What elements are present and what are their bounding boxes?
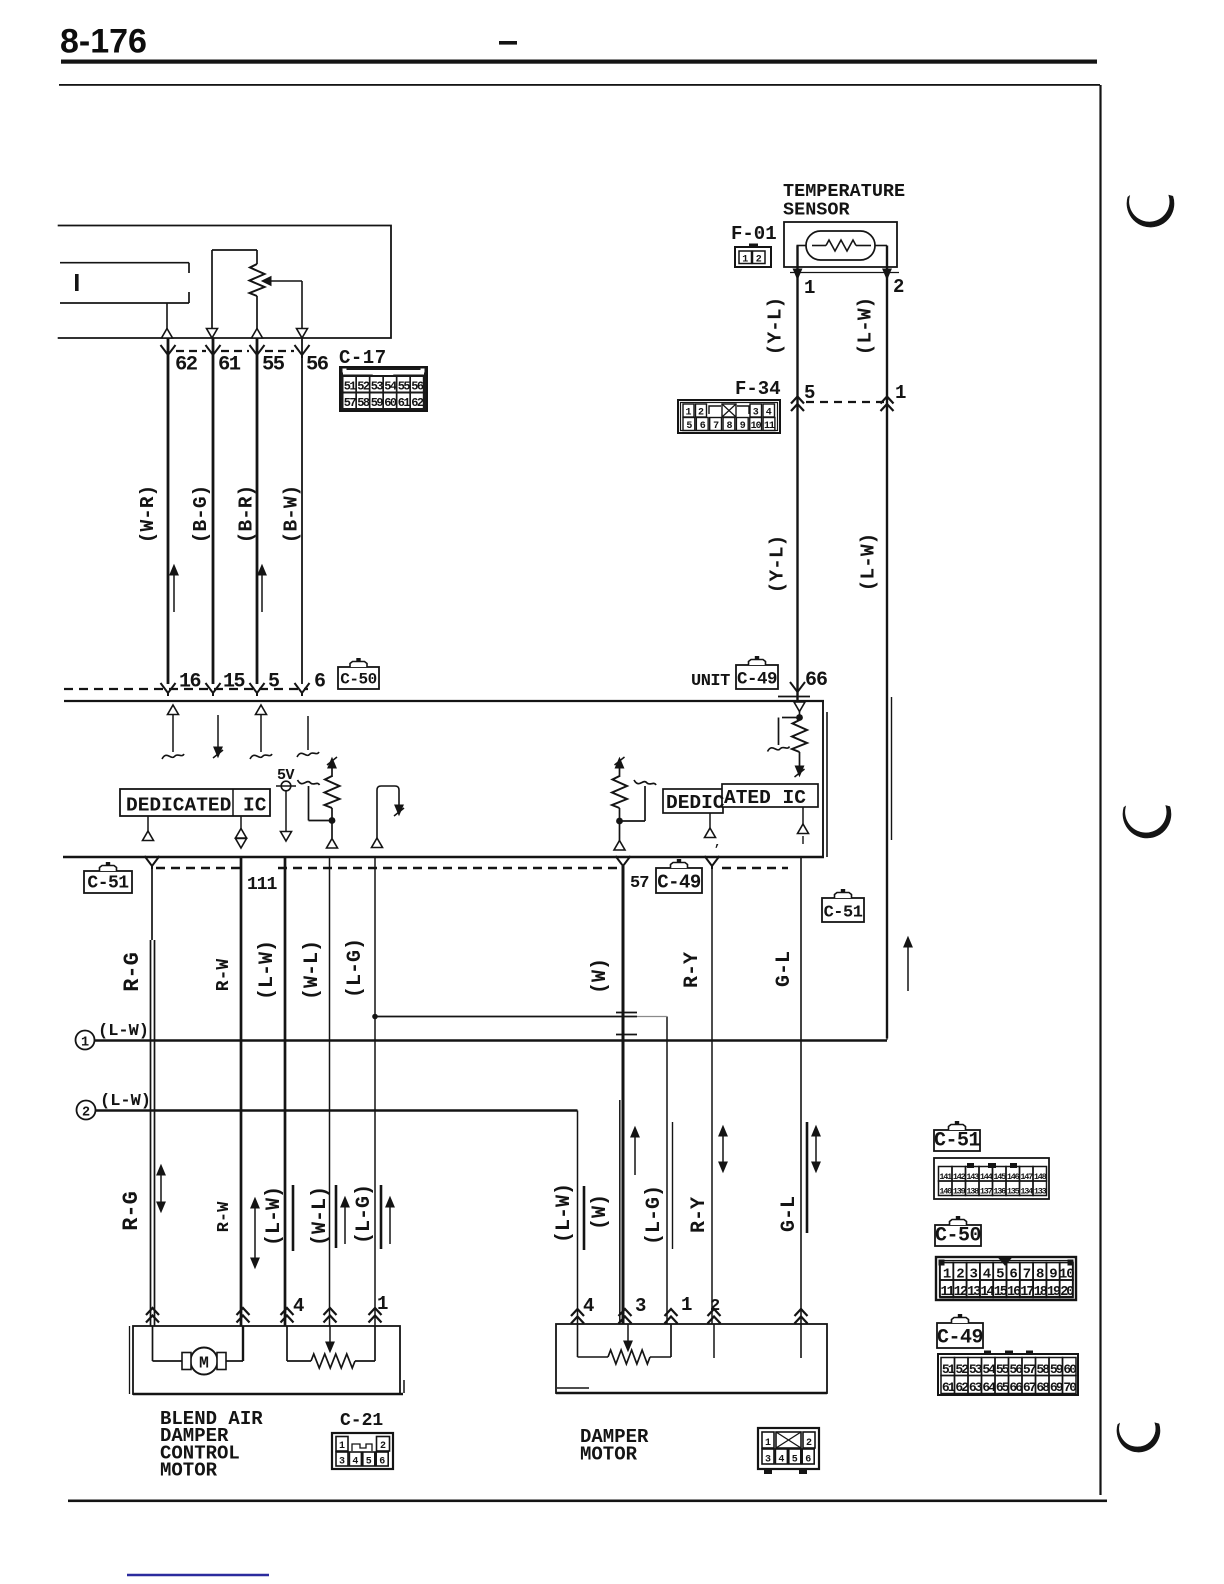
svg-text:58: 58 — [357, 396, 370, 410]
svg-text:(B-R): (B-R) — [236, 485, 258, 544]
svg-text:R-Y: R-Y — [681, 952, 704, 988]
svg-text:(L-W): (L-W) — [855, 297, 877, 356]
svg-text:(L-W): (L-W) — [553, 1183, 576, 1243]
svg-text:(W-R): (W-R) — [137, 485, 159, 544]
svg-text:60: 60 — [384, 396, 397, 410]
svg-text:R-G: R-G — [120, 952, 145, 992]
svg-text:C-51: C-51 — [934, 1130, 981, 1153]
svg-text:137: 137 — [980, 1186, 993, 1196]
svg-text:MOTOR: MOTOR — [580, 1444, 638, 1466]
svg-text:(W-L): (W-L) — [301, 940, 324, 1000]
svg-text:54: 54 — [384, 380, 397, 394]
svg-text:R-Y: R-Y — [688, 1197, 711, 1233]
svg-text:3: 3 — [635, 1295, 646, 1317]
svg-text:(Y-L): (Y-L) — [767, 535, 789, 594]
svg-text:(W): (W) — [589, 1194, 612, 1230]
svg-text:C-49: C-49 — [937, 1327, 983, 1350]
svg-text:C-17: C-17 — [339, 347, 387, 369]
svg-text:DEDIC: DEDIC — [666, 792, 725, 814]
svg-text:3: 3 — [339, 1457, 345, 1468]
svg-text:134: 134 — [1020, 1186, 1033, 1196]
svg-text:2: 2 — [380, 1441, 386, 1452]
svg-text:111: 111 — [247, 875, 278, 895]
svg-text:53: 53 — [371, 380, 384, 394]
svg-text:(L-W): (L-W) — [256, 940, 279, 1000]
svg-text:1: 1 — [804, 277, 815, 299]
svg-text:6: 6 — [314, 671, 326, 694]
svg-text:(Y-L): (Y-L) — [765, 297, 787, 356]
svg-text:C-50: C-50 — [935, 1225, 981, 1248]
svg-text:67: 67 — [1023, 1380, 1036, 1395]
svg-text:2: 2 — [806, 1438, 812, 1449]
svg-text:136: 136 — [993, 1186, 1006, 1196]
svg-text:(W): (W) — [589, 958, 612, 994]
svg-text:52: 52 — [357, 380, 370, 394]
svg-text:2: 2 — [710, 1297, 720, 1316]
svg-text:(L-W): (L-W) — [263, 1186, 286, 1246]
svg-text:(L-G): (L-G) — [643, 1185, 666, 1245]
svg-text:F-34: F-34 — [735, 378, 781, 400]
svg-text:2: 2 — [82, 1106, 90, 1121]
svg-text:56: 56 — [306, 354, 329, 377]
svg-text:(L-W): (L-W) — [858, 533, 880, 592]
svg-text:F-01: F-01 — [731, 223, 777, 245]
svg-text:138: 138 — [966, 1186, 979, 1196]
svg-text:(L-W): (L-W) — [100, 1092, 151, 1111]
svg-text:DEDICATED IC: DEDICATED IC — [126, 795, 267, 817]
svg-text:(B-W): (B-W) — [281, 485, 303, 544]
svg-text:M: M — [199, 1354, 209, 1373]
svg-text:62: 62 — [411, 396, 424, 410]
svg-text:4: 4 — [583, 1295, 594, 1317]
svg-text:(L-W): (L-W) — [98, 1022, 149, 1041]
svg-text:4: 4 — [352, 1457, 358, 1468]
svg-text:3: 3 — [765, 1455, 771, 1466]
svg-text:8-176: 8-176 — [60, 23, 147, 61]
svg-text:1: 1 — [81, 1036, 89, 1051]
svg-text:MOTOR: MOTOR — [160, 1460, 218, 1482]
svg-text:140: 140 — [939, 1186, 952, 1196]
svg-text:4: 4 — [778, 1455, 784, 1466]
svg-text:62: 62 — [175, 354, 198, 377]
svg-text:55: 55 — [262, 354, 285, 377]
svg-text:66: 66 — [805, 669, 827, 692]
svg-text:61: 61 — [398, 396, 411, 410]
svg-text:5: 5 — [366, 1457, 372, 1468]
svg-text:2: 2 — [893, 276, 904, 298]
svg-text:6: 6 — [379, 1457, 385, 1468]
svg-text:57: 57 — [344, 396, 357, 410]
svg-text:1: 1 — [681, 1294, 692, 1316]
svg-text:59: 59 — [371, 396, 384, 410]
svg-text:ATED IC: ATED IC — [724, 787, 806, 809]
svg-text:1: 1 — [765, 1438, 771, 1449]
svg-text:G-L: G-L — [778, 1196, 801, 1232]
svg-text:,: , — [714, 836, 721, 850]
svg-text:C-50: C-50 — [340, 671, 376, 689]
svg-text:C-21: C-21 — [340, 1411, 383, 1431]
svg-text:56: 56 — [411, 380, 424, 394]
svg-text:6: 6 — [805, 1455, 811, 1466]
svg-text:1: 1 — [895, 382, 906, 404]
svg-text:5: 5 — [792, 1455, 798, 1466]
svg-text:11: 11 — [764, 421, 775, 432]
svg-text:(L-G): (L-G) — [344, 938, 367, 998]
svg-text:1: 1 — [339, 1441, 345, 1452]
svg-text:(L-G): (L-G) — [353, 1184, 376, 1244]
svg-text:10: 10 — [751, 421, 762, 432]
svg-text:(W-L): (W-L) — [309, 1186, 332, 1246]
svg-text:UNIT: UNIT — [691, 672, 730, 691]
svg-text:61: 61 — [218, 354, 241, 377]
svg-text:5: 5 — [804, 382, 815, 404]
svg-text:57: 57 — [630, 874, 649, 893]
svg-text:133: 133 — [1034, 1186, 1047, 1196]
svg-text:C-51: C-51 — [824, 904, 863, 923]
svg-text:R-W: R-W — [215, 1201, 234, 1232]
svg-text:SENSOR: SENSOR — [783, 200, 851, 221]
svg-text:C-49: C-49 — [657, 872, 701, 894]
svg-text:135: 135 — [1007, 1186, 1020, 1196]
svg-text:2: 2 — [756, 255, 762, 266]
svg-text:C-51: C-51 — [87, 874, 129, 894]
svg-text:139: 139 — [953, 1186, 966, 1196]
svg-text:R-G: R-G — [119, 1191, 144, 1231]
svg-text:(B-G): (B-G) — [190, 485, 212, 544]
svg-text:55: 55 — [398, 380, 411, 394]
svg-text:G-L: G-L — [773, 951, 796, 987]
svg-text:C-49: C-49 — [737, 670, 777, 690]
svg-text:1: 1 — [742, 255, 748, 266]
svg-text:4: 4 — [293, 1295, 304, 1317]
svg-text:51: 51 — [344, 380, 357, 394]
svg-text:R-W: R-W — [214, 959, 234, 992]
svg-text:20: 20 — [1060, 1285, 1074, 1300]
svg-text:1: 1 — [377, 1293, 388, 1315]
